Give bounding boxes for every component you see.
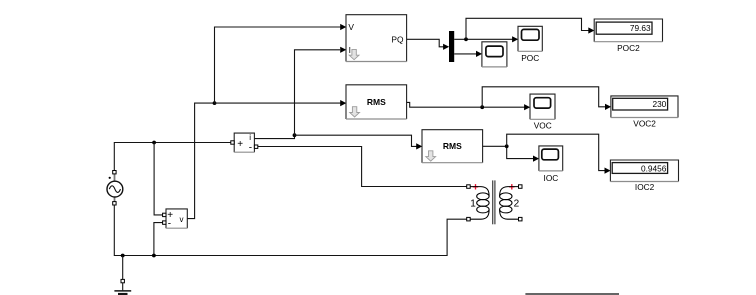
winding 2 terminals	[519, 185, 523, 189]
node A: junction to voltage measurement plus	[152, 141, 156, 145]
scope IOC	[539, 146, 563, 183]
wire: demux out1 to POC scope	[454, 36, 518, 42]
red plus winding 1	[473, 184, 478, 189]
svg-text:VOC2: VOC2	[633, 119, 656, 129]
svg-text:V: V	[348, 22, 354, 32]
node C: I signal junction	[293, 133, 297, 137]
svg-text:-: -	[249, 142, 252, 153]
scope (unnamed)	[482, 42, 507, 67]
svg-text:v: v	[180, 215, 184, 224]
svg-text:79.63: 79.63	[630, 23, 651, 33]
wire: PQ output to demux input	[407, 39, 450, 50]
wire: node B to RMS1 input	[215, 100, 347, 106]
svg-text:IOC2: IOC2	[635, 182, 655, 192]
svg-text:IOC: IOC	[544, 173, 559, 183]
svg-text:1: 1	[470, 199, 476, 210]
svg-text:2: 2	[514, 199, 520, 210]
display IOC2	[610, 160, 678, 192]
voltage measurement block	[163, 209, 188, 230]
winding 1 terminals	[467, 185, 471, 189]
wire: node G down to ground	[122, 256, 124, 280]
wire: node E up and right to VOC2 display	[482, 87, 611, 110]
RMS1 block	[346, 85, 407, 119]
wire: demux out2 to scope	[454, 51, 482, 57]
svg-text:RMS: RMS	[443, 141, 462, 151]
wire: voltage measurement minus to bottom rail	[154, 223, 163, 256]
wire: RMS1 output to VOC scope	[407, 102, 531, 110]
ac voltage source	[107, 171, 123, 206]
svg-text:PQ: PQ	[391, 35, 404, 45]
wire: i signal output to node C	[254, 135, 294, 138]
svg-text:i: i	[249, 133, 251, 142]
node G: ground junction	[121, 254, 125, 258]
svg-text:RMS: RMS	[367, 97, 386, 107]
scope VOC	[530, 94, 555, 130]
svg-text:+: +	[237, 139, 243, 150]
wire: node F up and right to IOC2 display	[507, 134, 611, 174]
node D: junction on demux out1	[464, 37, 468, 41]
wire: node C up to PQ I input	[295, 47, 347, 136]
demux	[449, 31, 454, 62]
scope POC	[518, 26, 542, 63]
red plus winding 2	[509, 184, 514, 189]
current measurement block	[231, 133, 258, 153]
wire: source minus down, bottom rail, up to transformer winding1 minus	[114, 205, 466, 255]
node F: junction on RMS2 output	[505, 144, 509, 148]
RMS2 block	[422, 130, 483, 163]
core	[492, 180, 494, 224]
svg-text:I: I	[349, 45, 351, 55]
svg-text:0.9456: 0.9456	[641, 163, 667, 173]
wire: RMS2 output to IOC scope	[483, 146, 539, 161]
powergui block top edge (cut off at bottom)	[525, 293, 619, 295]
svg-text:VOC: VOC	[534, 121, 552, 131]
display VOC2	[611, 96, 678, 129]
node E: junction on RMS1 output	[480, 105, 484, 109]
wire: node C to RMS2 input	[295, 135, 423, 149]
wire: node B up to PQ V input	[215, 24, 347, 103]
svg-text:230: 230	[652, 99, 666, 109]
winding 2 coil	[500, 187, 519, 220]
svg-text:POC: POC	[521, 53, 539, 63]
winding 1 coil	[470, 187, 489, 220]
wire: source plus up and right to current measurement plus	[114, 143, 230, 171]
ground	[114, 279, 131, 294]
wire: voltage measurement output up to node B level	[187, 103, 214, 219]
display POC2	[594, 19, 662, 53]
node H: voltage measurement minus junction	[152, 254, 156, 258]
transformer	[467, 180, 522, 224]
wire: node A down to voltage measurement plus	[154, 143, 163, 215]
svg-text:-: -	[168, 219, 171, 230]
svg-text:POC2: POC2	[617, 43, 640, 53]
power measurement block PQ	[346, 15, 407, 62]
wire: node D up and right to POC2 display	[466, 18, 594, 39]
node B: V signal junction	[213, 101, 217, 105]
wire: i minus to transformer winding1 plus	[258, 147, 467, 187]
